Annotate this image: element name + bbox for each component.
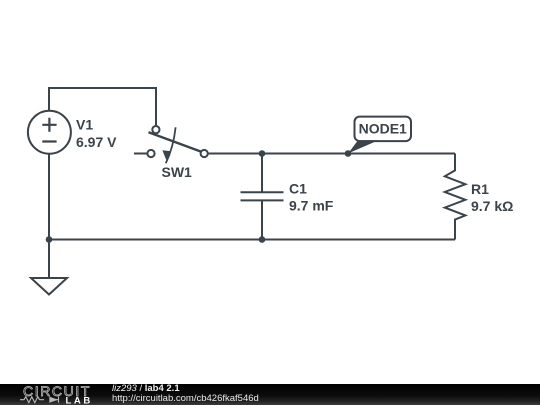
svg-text:LAB: LAB — [66, 396, 93, 405]
svg-text:SW1: SW1 — [162, 164, 193, 180]
svg-text:6.97 V: 6.97 V — [76, 134, 117, 150]
svg-text:V1: V1 — [76, 117, 93, 133]
svg-text:R1: R1 — [471, 181, 489, 197]
svg-text:C1: C1 — [289, 181, 307, 197]
svg-text:9.7 mF: 9.7 mF — [289, 198, 334, 214]
svg-text:9.7 kΩ: 9.7 kΩ — [471, 198, 513, 214]
svg-text:NODE1: NODE1 — [359, 121, 407, 137]
